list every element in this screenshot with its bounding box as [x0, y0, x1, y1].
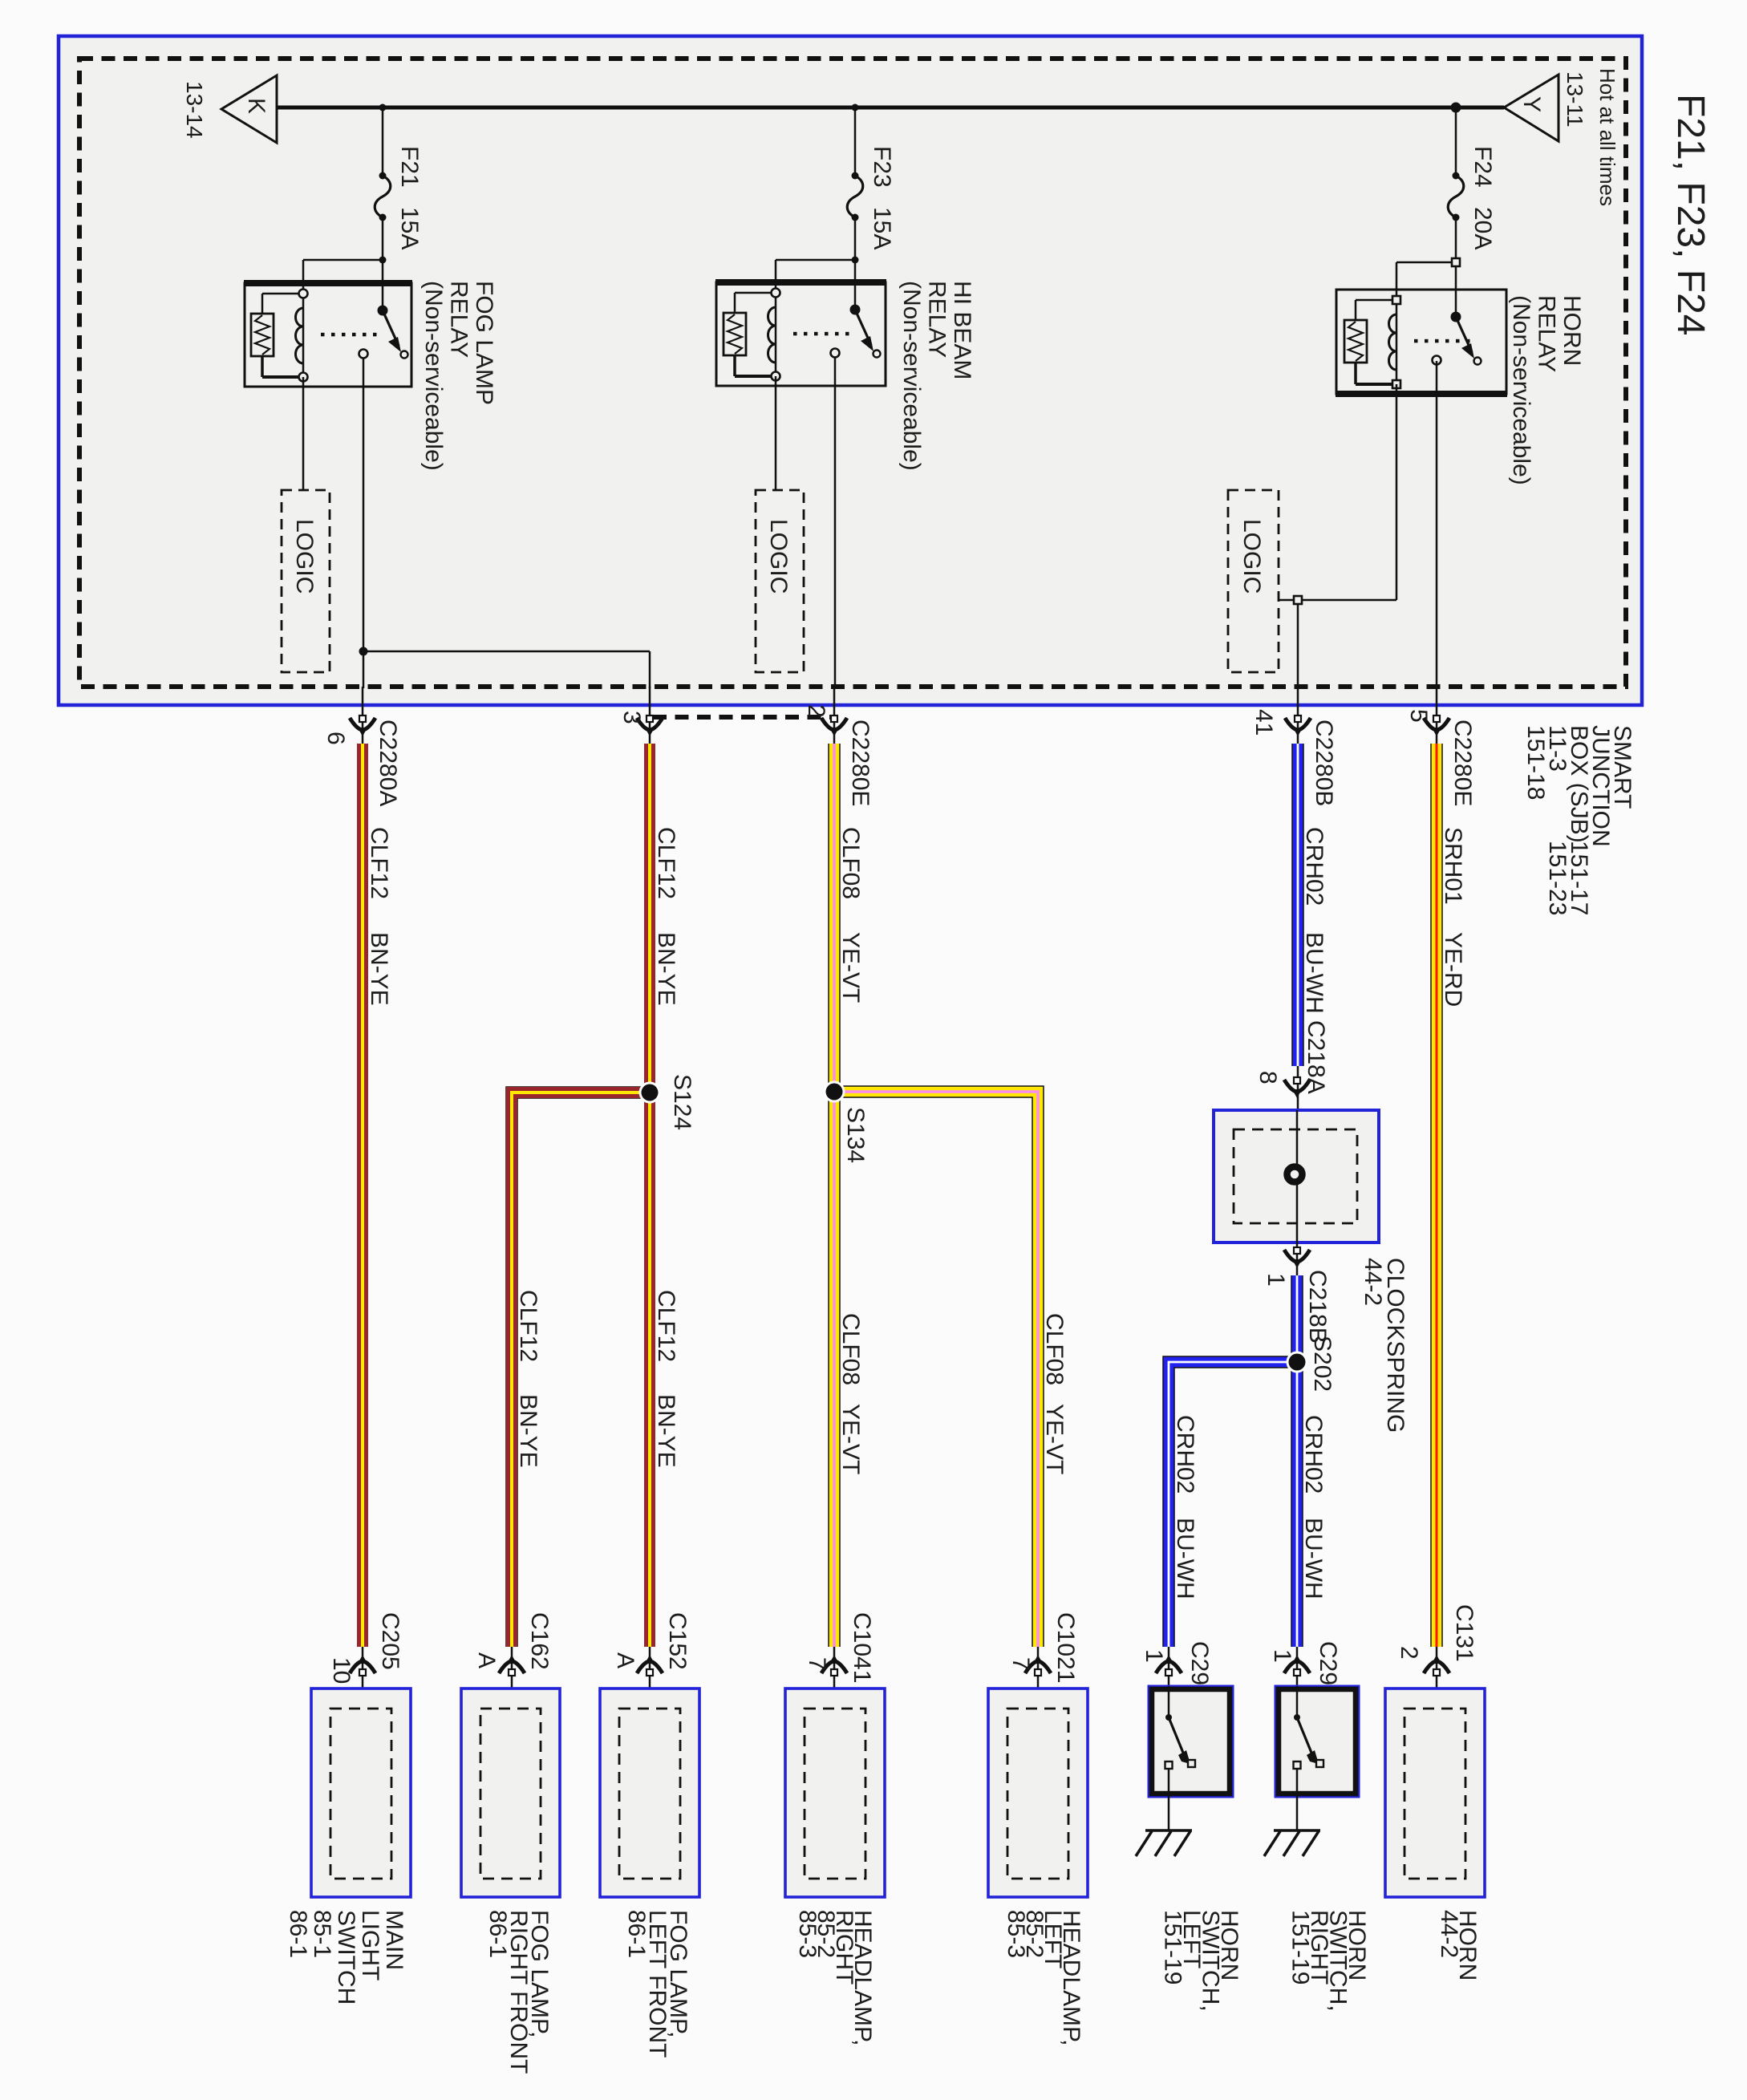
label 41: [1250, 709, 1277, 736]
label 10: [328, 1657, 355, 1684]
label FOG LAMP RELAY: [420, 281, 497, 471]
label HORN SWITCH LEFT: [1160, 1910, 1243, 2012]
svg-text:CLF08: CLF08: [837, 1313, 864, 1385]
wire CLF08 YE-VT pin2 to S134: [828, 744, 841, 1092]
label A C162: [473, 1652, 500, 1668]
label SMART JUNCTION BOX: [1522, 725, 1636, 847]
label C218B: [1304, 1270, 1331, 1344]
svg-text:C205: C205: [377, 1612, 403, 1670]
label 5: [1405, 709, 1432, 723]
connector arrow C162: [511, 1647, 513, 1709]
svg-text:LOGIC: LOGIC: [1238, 519, 1265, 594]
svg-text:5: 5: [1405, 709, 1432, 723]
svg-text:85-1: 85-1: [309, 1910, 335, 1958]
label C2996: [1186, 1641, 1213, 1712]
svg-text:13-14: 13-14: [182, 81, 207, 139]
svg-text:RELAY: RELAY: [924, 281, 951, 358]
off-page connector K triangle: [221, 75, 277, 143]
svg-text:1: 1: [1263, 1273, 1289, 1287]
label C2280B: [1311, 720, 1337, 806]
label C205: [377, 1612, 403, 1670]
svg-text:151-19: 151-19: [1287, 1910, 1314, 1984]
svg-text:BN-YE: BN-YE: [515, 1394, 541, 1468]
fuse F21 15A: [379, 172, 387, 180]
label CLF12 BN-YE branch C162: [515, 1290, 541, 1362]
svg-text:C2280B: C2280B: [1311, 720, 1337, 806]
label 13-14: [182, 81, 207, 139]
SJB dashed connector notch: [653, 715, 834, 720]
svg-text:6: 6: [322, 732, 349, 745]
svg-text:15A: 15A: [396, 207, 423, 249]
component FOG LAMP RIGHT FRONT: [461, 1689, 560, 1897]
wire bus to fuse F21: [382, 107, 384, 176]
label F24 20A: [1469, 146, 1496, 188]
clockspring coil symbol: [1287, 1167, 1303, 1182]
clockspring C218A arrow: [1297, 1066, 1299, 1110]
wire through clockspring: [1296, 1110, 1299, 1164]
svg-text:MAIN: MAIN: [381, 1910, 407, 1970]
svg-text:C152: C152: [664, 1612, 691, 1670]
wire horn coil to logic link: [1396, 384, 1398, 600]
wire fog output to junction: [363, 358, 365, 688]
label CLOCKSPRING 44-2: [1360, 1258, 1409, 1433]
label 1 C2995: [1269, 1649, 1295, 1663]
label C162: [526, 1612, 553, 1670]
svg-text:BN-YE: BN-YE: [653, 1394, 679, 1468]
svg-text:CRH02: CRH02: [1301, 827, 1327, 906]
svg-text:(Non-serviceable): (Non-serviceable): [898, 281, 925, 471]
svg-text:YE-RD: YE-RD: [1440, 932, 1466, 1007]
pin 2 connector arrow: [833, 687, 836, 746]
svg-text:CLF08: CLF08: [837, 827, 864, 899]
svg-text:CLF08: CLF08: [1041, 1313, 1068, 1385]
svg-text:F23: F23: [869, 146, 895, 188]
wire CRH02 BU-WH C218B to S202: [1291, 1275, 1303, 1362]
svg-text:BN-YE: BN-YE: [366, 932, 392, 1006]
svg-text:1: 1: [1141, 1649, 1167, 1663]
svg-text:1: 1: [1269, 1649, 1295, 1663]
logic box fog: [282, 490, 330, 672]
svg-text:BU-WH: BU-WH: [1172, 1518, 1198, 1599]
component MAIN LIGHT SWITCH: [311, 1689, 411, 1897]
svg-text:2: 2: [803, 704, 829, 718]
svg-text:151-23: 151-23: [1544, 841, 1571, 915]
fuse F23 15A: [852, 172, 859, 180]
svg-text:BN-YE: BN-YE: [653, 932, 679, 1006]
svg-text:RELAY: RELAY: [1534, 295, 1560, 372]
label C2995: [1315, 1641, 1341, 1712]
connector arrow C2995: [1296, 1647, 1299, 1686]
wire CLF08 YE-VT S134 to C1041: [828, 1092, 841, 1647]
label LOGIC hibeam: [765, 519, 792, 594]
svg-text:86-1: 86-1: [285, 1910, 311, 1958]
wire CLF08 YE-VT S134 branch to C1021: [834, 1092, 1038, 1647]
label 8: [1255, 1071, 1281, 1084]
svg-text:Y: Y: [1518, 96, 1545, 112]
svg-text:SRH01: SRH01: [1440, 827, 1466, 905]
label HORN RELAY: [1508, 295, 1585, 485]
component HORN SWITCH RIGHT: [1275, 1686, 1359, 1797]
label CLF08 YE-VT branch C1021: [1041, 1313, 1068, 1385]
svg-text:LIGHT: LIGHT: [357, 1910, 383, 1980]
wire hibeam coil to logic: [775, 376, 777, 490]
label LOGIC horn: [1238, 519, 1265, 594]
label 3: [618, 711, 645, 724]
label HEADLAMP LEFT: [1003, 1910, 1084, 2046]
label S124: [669, 1074, 695, 1130]
label CLF08 YE-VT pin2: [837, 827, 864, 899]
svg-text:CLF12: CLF12: [366, 827, 392, 899]
svg-text:44-2: 44-2: [1436, 1910, 1462, 1958]
wire hibeam output to pin 2: [834, 358, 837, 688]
svg-text:F24: F24: [1469, 146, 1496, 188]
wire hibeam relay coil feed jog: [776, 259, 855, 261]
label CLF08 YE-VT to C1041: [837, 1313, 864, 1385]
label C218A: [1303, 1020, 1329, 1094]
connector arrow C131: [1436, 1647, 1438, 1709]
label LOGIC fog: [291, 519, 318, 594]
svg-text:HI BEAM: HI BEAM: [949, 281, 975, 379]
label 7 C1041: [804, 1657, 830, 1671]
label HEADLAMP RIGHT: [794, 1910, 876, 2046]
label C1041: [849, 1612, 875, 1683]
label A C152: [612, 1652, 638, 1668]
label FOG LAMP LEFT FRONT: [623, 1910, 691, 2057]
svg-text:CRH02: CRH02: [1172, 1415, 1198, 1494]
bus junction node F21: [379, 104, 387, 111]
svg-text:C131: C131: [1451, 1604, 1477, 1662]
svg-text:LOGIC: LOGIC: [765, 519, 792, 594]
splice S124: [639, 1082, 661, 1104]
connector arrow C152: [649, 1647, 651, 1709]
node fog feed junction: [379, 257, 387, 264]
bus wire hot at all times: [277, 106, 1504, 110]
svg-text:20A: 20A: [1469, 207, 1496, 249]
label F23 15A: [869, 146, 895, 188]
label C131: [1451, 1604, 1477, 1662]
svg-text:85-3: 85-3: [1003, 1910, 1029, 1958]
svg-text:44-2: 44-2: [1360, 1258, 1386, 1306]
wire fog coil to logic: [302, 377, 305, 490]
svg-text:C162: C162: [526, 1612, 553, 1670]
label C2280A: [375, 720, 401, 806]
pin 6 connector arrow: [362, 687, 364, 746]
svg-text:S124: S124: [669, 1074, 695, 1130]
label CLF12 BN-YE pin6: [366, 827, 392, 899]
svg-text:85-3: 85-3: [794, 1910, 821, 1958]
clockspring C218B arrow: [1296, 1243, 1299, 1277]
svg-text:151-18: 151-18: [1522, 725, 1549, 800]
svg-text:3: 3: [618, 711, 645, 724]
svg-text:13-11: 13-11: [1563, 71, 1587, 128]
wire F21 to relay: [382, 217, 384, 310]
wire CRH02 BU-WH S202 to C2995: [1291, 1362, 1303, 1647]
connector arrow C1041: [833, 1647, 836, 1709]
wire CRH02 BU-WH S202 branch to C2996: [1169, 1362, 1297, 1647]
fuse F24 20A: [1453, 172, 1460, 180]
label F21 15A: [396, 146, 423, 188]
wire CLF12 BN-YE S124 branch to C162: [512, 1093, 650, 1647]
label HI BEAM RELAY: [898, 281, 975, 471]
wire CLF12 BN-YE pin6 to C205: [357, 744, 368, 1647]
label 13-11: [1563, 71, 1587, 128]
title F21, F23, F24: [1669, 94, 1712, 335]
svg-text:C2280E: C2280E: [847, 720, 873, 806]
label C2280E pin5: [1449, 720, 1476, 806]
svg-text:7: 7: [1007, 1657, 1034, 1671]
label C2280E pin2: [847, 720, 873, 806]
wire horn switch to pin 5: [1436, 361, 1438, 688]
clockspring box: [1214, 1110, 1379, 1243]
wire F23 to relay: [854, 217, 857, 310]
svg-text:SWITCH: SWITCH: [333, 1910, 359, 2005]
svg-text:CLF12: CLF12: [515, 1290, 541, 1362]
wire horn relay coil feed jog: [1396, 261, 1456, 264]
svg-text:BU-WH: BU-WH: [1300, 1518, 1327, 1599]
svg-text:41: 41: [1250, 709, 1277, 736]
svg-text:CLF12: CLF12: [653, 1290, 679, 1362]
SJB inner dashed boundary: [79, 59, 1626, 687]
splice S202: [1287, 1352, 1308, 1373]
svg-text:(Non-serviceable): (Non-serviceable): [420, 281, 447, 471]
label 2 C131: [1396, 1646, 1422, 1660]
svg-text:10: 10: [328, 1657, 355, 1684]
component HORN SWITCH LEFT: [1149, 1686, 1233, 1797]
ground horn switch right: [1274, 1829, 1320, 1832]
terminal square horn logic pin: [1294, 596, 1302, 604]
svg-text:RELAY: RELAY: [446, 281, 472, 358]
svg-text:LOGIC: LOGIC: [291, 519, 318, 594]
label FOG LAMP RIGHT FRONT: [484, 1910, 553, 2074]
svg-text:A: A: [612, 1652, 638, 1668]
svg-text:K: K: [243, 98, 270, 114]
svg-text:S134: S134: [842, 1107, 869, 1163]
pin 41 connector arrow: [1297, 687, 1299, 746]
SJB smart junction box outline: [59, 36, 1642, 705]
label Hot at all times: [1595, 68, 1619, 206]
svg-text:(Non-serviceable): (Non-serviceable): [1508, 295, 1534, 485]
wire fog junction to pin 3: [363, 651, 650, 653]
component FOG LAMP LEFT FRONT: [600, 1689, 699, 1897]
wire fog relay coil feed jog: [303, 259, 383, 261]
svg-text:86-1: 86-1: [623, 1910, 650, 1958]
svg-text:YE-VT: YE-VT: [1041, 1404, 1068, 1474]
svg-text:2: 2: [1396, 1646, 1422, 1660]
svg-text:YE-VT: YE-VT: [837, 932, 864, 1003]
svg-text:BU-WH: BU-WH: [1301, 932, 1327, 1014]
bus junction node F24: [1451, 103, 1461, 113]
svg-text:C1021: C1021: [1052, 1612, 1079, 1683]
label 1 C2996: [1141, 1649, 1167, 1663]
label HORN SWITCH RIGHT: [1287, 1910, 1371, 2012]
wire bus to fuse F24: [1455, 107, 1457, 176]
svg-text:C1041: C1041: [849, 1612, 875, 1683]
off-page connector Y triangle: [1504, 75, 1559, 141]
bus junction node F23: [852, 104, 859, 111]
wire CLF12 BN-YE pin3 to S124: [644, 744, 655, 1093]
svg-text:C2280E: C2280E: [1449, 720, 1476, 806]
logic box horn: [1228, 490, 1279, 672]
svg-text:15A: 15A: [869, 207, 895, 249]
label CRH02 BU-WH branch: [1172, 1415, 1198, 1494]
svg-text:FOG LAMP: FOG LAMP: [471, 281, 497, 405]
svg-text:A: A: [473, 1652, 500, 1668]
label CRH02 BU-WH to C2995: [1300, 1415, 1327, 1494]
svg-text:C218A: C218A: [1303, 1020, 1329, 1094]
label MAIN LIGHT SWITCH: [285, 1910, 407, 2005]
wire bus to fuse F23: [854, 107, 857, 176]
label C1021: [1052, 1612, 1079, 1683]
component HEADLAMP RIGHT: [785, 1689, 885, 1897]
label 2 pin: [803, 704, 829, 718]
node fog output junction: [359, 647, 368, 656]
relay HORN: [1336, 290, 1506, 394]
logic box hibeam: [756, 490, 804, 672]
wire SRH01 YE-RD pin5 to C131: [1430, 744, 1443, 1647]
svg-text:S202: S202: [1309, 1336, 1336, 1392]
svg-text:CRH02: CRH02: [1300, 1415, 1327, 1494]
wire horn logic pin to pin 41: [1297, 604, 1299, 688]
svg-text:CLF12: CLF12: [653, 827, 679, 899]
label C152: [664, 1612, 691, 1670]
relay HI BEAM: [716, 282, 886, 386]
node hibeam feed junction: [852, 257, 859, 264]
svg-text:7: 7: [804, 1657, 830, 1671]
svg-text:F21, F23, F24: F21, F23, F24: [1669, 94, 1712, 335]
label S134: [842, 1107, 869, 1163]
svg-text:F21: F21: [396, 146, 423, 188]
relay FOG LAMP: [245, 283, 411, 387]
label CRH02 BU-WH pin41: [1301, 827, 1327, 906]
label CLF12 BN-YE pin3: [653, 827, 679, 899]
label 6: [322, 732, 349, 745]
label SRH01 YE-RD: [1440, 827, 1466, 905]
connector arrow C2996: [1168, 1647, 1170, 1686]
ground horn switch left: [1145, 1829, 1192, 1832]
wire CRH02 BU-WH pin41 to C218A: [1291, 744, 1304, 1066]
wire F24 to relay: [1455, 217, 1457, 317]
svg-text:151-19: 151-19: [1160, 1910, 1186, 1984]
label S202: [1309, 1336, 1336, 1392]
svg-text:C2280A: C2280A: [375, 720, 401, 806]
wire CLF12 BN-YE S124 to C152: [644, 1093, 655, 1647]
pin 3 connector arrow: [649, 687, 651, 746]
svg-text:HORN: HORN: [1559, 295, 1585, 366]
connector arrow C205: [362, 1647, 364, 1709]
svg-text:86-1: 86-1: [484, 1910, 511, 1958]
splice S134: [824, 1081, 845, 1103]
label CLF12 BN-YE to C152: [653, 1290, 679, 1362]
connector arrow C1021: [1037, 1647, 1040, 1709]
terminal square horn feed: [1452, 258, 1460, 266]
label 1 C218B: [1263, 1273, 1289, 1287]
svg-text:Hot at all times: Hot at all times: [1595, 68, 1619, 206]
label 7 C1021: [1007, 1657, 1034, 1671]
component HEADLAMP LEFT: [988, 1689, 1088, 1897]
svg-text:C218B: C218B: [1304, 1270, 1331, 1344]
svg-text:YE-VT: YE-VT: [837, 1404, 864, 1474]
svg-text:8: 8: [1255, 1071, 1281, 1084]
pin 5 connector arrow: [1436, 687, 1438, 746]
component HORN: [1385, 1689, 1485, 1897]
label HORN 44-2: [1436, 1910, 1481, 1980]
